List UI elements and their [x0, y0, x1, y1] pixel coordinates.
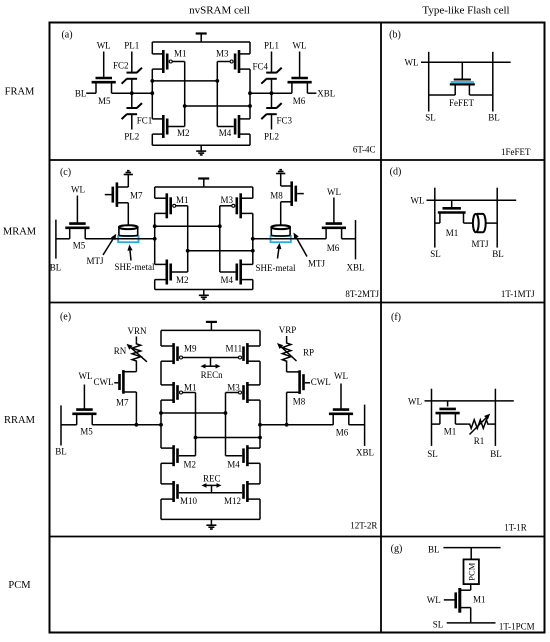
- svg-text:M2: M2: [177, 128, 190, 138]
- svg-text:M1: M1: [444, 427, 457, 437]
- svg-text:MTJ: MTJ: [308, 259, 326, 269]
- svg-text:M1: M1: [176, 195, 189, 205]
- svg-text:CWL: CWL: [311, 377, 331, 387]
- svg-text:XBL: XBL: [317, 89, 335, 99]
- svg-text:WL: WL: [411, 196, 425, 206]
- svg-text:M11: M11: [226, 344, 243, 354]
- svg-text:R1: R1: [474, 436, 485, 446]
- svg-text:WL: WL: [71, 185, 85, 195]
- svg-text:BL: BL: [55, 447, 67, 457]
- svg-text:PL2: PL2: [264, 131, 279, 141]
- svg-text:M7: M7: [130, 191, 143, 201]
- svg-text:XBL: XBL: [356, 448, 374, 458]
- svg-text:1FeFET: 1FeFET: [501, 147, 531, 157]
- svg-text:FC3: FC3: [277, 115, 293, 125]
- svg-text:(f): (f): [391, 312, 401, 323]
- svg-text:M3: M3: [227, 383, 240, 393]
- svg-text:M4: M4: [227, 460, 240, 470]
- svg-text:(b): (b): [389, 30, 401, 41]
- svg-text:FC1: FC1: [137, 115, 153, 125]
- svg-text:CWL: CWL: [94, 377, 114, 387]
- svg-text:WL: WL: [79, 371, 93, 381]
- svg-text:M4: M4: [219, 128, 232, 138]
- svg-text:SL: SL: [425, 113, 436, 123]
- svg-text:M5: M5: [98, 96, 111, 106]
- svg-text:6T-4C: 6T-4C: [353, 144, 376, 154]
- svg-text:WL: WL: [334, 371, 348, 381]
- svg-text:M10: M10: [180, 496, 198, 506]
- svg-text:Type-like Flash cell: Type-like Flash cell: [422, 5, 509, 17]
- svg-text:M2: M2: [184, 460, 197, 470]
- svg-text:M1: M1: [174, 49, 187, 59]
- svg-text:FC2: FC2: [113, 61, 129, 71]
- svg-text:SL: SL: [433, 620, 444, 630]
- svg-text:M5: M5: [73, 240, 86, 250]
- svg-text:M7: M7: [116, 398, 129, 408]
- svg-text:(a): (a): [61, 30, 72, 41]
- svg-text:M6: M6: [327, 243, 340, 253]
- svg-text:WL: WL: [293, 41, 307, 51]
- svg-text:M6: M6: [293, 96, 306, 106]
- svg-text:WL: WL: [405, 58, 419, 68]
- svg-text:SHE-metal: SHE-metal: [115, 262, 155, 272]
- svg-text:1T-1MTJ: 1T-1MTJ: [501, 289, 535, 299]
- svg-text:REC: REC: [203, 473, 221, 483]
- svg-text:BL: BL: [490, 449, 502, 459]
- svg-text:RP: RP: [303, 348, 314, 358]
- svg-text:1T-1R: 1T-1R: [504, 523, 527, 533]
- svg-text:SL: SL: [430, 249, 441, 259]
- svg-text:M8: M8: [270, 191, 283, 201]
- svg-text:M6: M6: [336, 428, 349, 438]
- svg-text:VRN: VRN: [127, 326, 147, 336]
- svg-text:MRAM: MRAM: [3, 227, 37, 238]
- svg-text:M1: M1: [184, 383, 197, 393]
- svg-text:WL: WL: [327, 187, 341, 197]
- svg-text:WL: WL: [427, 595, 441, 605]
- svg-text:FRAM: FRAM: [5, 87, 35, 98]
- svg-text:M12: M12: [224, 496, 241, 506]
- svg-text:M3: M3: [216, 49, 229, 59]
- svg-text:M1: M1: [473, 595, 486, 605]
- svg-text:MTJ: MTJ: [86, 256, 104, 266]
- svg-text:SL: SL: [427, 449, 438, 459]
- svg-text:SHE-metal: SHE-metal: [256, 263, 296, 273]
- svg-text:M2: M2: [176, 275, 189, 285]
- svg-text:8T-2MTJ: 8T-2MTJ: [345, 289, 379, 299]
- svg-text:FeFET: FeFET: [449, 98, 475, 108]
- svg-text:RRAM: RRAM: [4, 415, 36, 426]
- svg-text:BL: BL: [428, 544, 440, 554]
- svg-text:(e): (e): [60, 312, 71, 323]
- svg-text:VRP: VRP: [279, 325, 297, 335]
- svg-text:XBL: XBL: [347, 263, 365, 273]
- svg-text:BL: BL: [488, 113, 500, 123]
- svg-text:1T-1PCM: 1T-1PCM: [499, 622, 535, 632]
- svg-text:WL: WL: [97, 41, 111, 51]
- svg-text:PL1: PL1: [264, 41, 279, 51]
- svg-text:PL1: PL1: [124, 41, 139, 51]
- svg-text:(g): (g): [391, 544, 403, 555]
- svg-text:12T-2R: 12T-2R: [350, 521, 377, 531]
- svg-text:FC4: FC4: [252, 62, 268, 72]
- svg-text:(d): (d): [390, 167, 402, 178]
- svg-text:PCM: PCM: [467, 562, 477, 580]
- svg-text:PL2: PL2: [124, 131, 139, 141]
- svg-text:M3: M3: [221, 195, 234, 205]
- svg-text:(c): (c): [60, 167, 71, 178]
- svg-text:BL: BL: [492, 249, 504, 259]
- svg-text:RN: RN: [114, 346, 127, 356]
- svg-text:nvSRAM cell: nvSRAM cell: [189, 5, 250, 17]
- svg-text:MTJ: MTJ: [471, 239, 489, 249]
- svg-text:BL: BL: [75, 89, 87, 99]
- svg-text:M5: M5: [80, 427, 93, 437]
- svg-text:M8: M8: [293, 397, 306, 407]
- svg-text:M4: M4: [221, 275, 234, 285]
- svg-text:M1: M1: [446, 228, 459, 238]
- svg-text:PCM: PCM: [8, 580, 31, 591]
- svg-text:M9: M9: [184, 344, 197, 354]
- svg-text:WL: WL: [408, 396, 422, 406]
- svg-text:BL: BL: [50, 263, 62, 273]
- svg-text:RECn: RECn: [201, 370, 224, 380]
